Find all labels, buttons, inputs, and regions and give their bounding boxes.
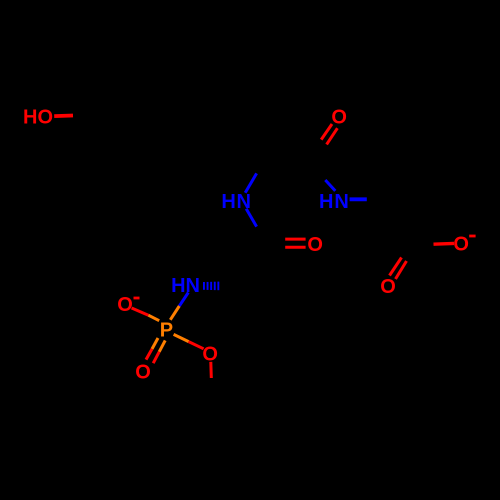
bond N1-C(=O) half bbox=[246, 209, 256, 227]
bond P=O4 line b P-half orange bbox=[159, 340, 165, 351]
bond O3-P half (P side, orange) bbox=[148, 315, 159, 321]
svg-text:H: H bbox=[221, 191, 235, 213]
svg-text:O: O bbox=[380, 276, 396, 298]
hashed wedge N3-C* tick 2 bbox=[207, 282, 209, 290]
svg-text:HN: HN bbox=[171, 275, 200, 297]
hashed wedge N3-C* tick 4 bbox=[214, 282, 216, 290]
bond N2-CH2 half bbox=[350, 197, 367, 201]
svg-text:O: O bbox=[117, 294, 133, 316]
hashed wedge N3-C* tick 3 bbox=[210, 282, 212, 290]
bond C=O2 half line b bbox=[285, 246, 305, 249]
bond C=O1 half line b bbox=[327, 128, 338, 144]
svg-text:O: O bbox=[331, 106, 347, 128]
charge minus on O3 bbox=[134, 297, 140, 300]
bond O5-CH3 half bbox=[209, 362, 213, 378]
bond P-O5 half (P side, orange) bbox=[174, 334, 189, 341]
bond C=O7 half line a bbox=[390, 258, 402, 276]
bond C=O7 half line b bbox=[396, 261, 407, 279]
svg-text:O: O bbox=[135, 361, 151, 383]
bond O-C(ring) half bbox=[54, 114, 73, 118]
svg-text:H: H bbox=[319, 191, 333, 213]
hashed wedge N3-C* tick 5 bbox=[217, 282, 219, 291]
bond C=O1 half line a bbox=[321, 124, 332, 140]
bond C(=O)-N2 half bbox=[325, 180, 335, 191]
bond C-O6 half bbox=[434, 242, 455, 246]
bond N3-P half (N side, blue) bbox=[179, 293, 188, 307]
bond N3-P half (P side, orange) bbox=[170, 306, 179, 320]
bond C=O2 half line a bbox=[285, 238, 305, 241]
bond P-O5 half (O side, red) bbox=[189, 342, 204, 349]
bond P=O4 line a O-half red bbox=[146, 349, 152, 360]
svg-text:HO: HO bbox=[23, 107, 53, 129]
bond P=O4 line a P-half orange bbox=[152, 338, 158, 349]
charge minus on O6 bbox=[469, 235, 475, 238]
bond O3-P half (O side, red) bbox=[132, 308, 149, 315]
svg-text:O: O bbox=[453, 234, 469, 256]
hashed wedge N3-C* tick 1 bbox=[203, 282, 205, 290]
svg-text:N: N bbox=[236, 191, 250, 213]
bond P=O4 line b O-half red bbox=[153, 352, 159, 363]
svg-text:O: O bbox=[307, 234, 323, 256]
bond N1-Calpha half bbox=[245, 173, 256, 192]
svg-text:P: P bbox=[160, 319, 173, 341]
svg-text:N: N bbox=[334, 191, 348, 213]
